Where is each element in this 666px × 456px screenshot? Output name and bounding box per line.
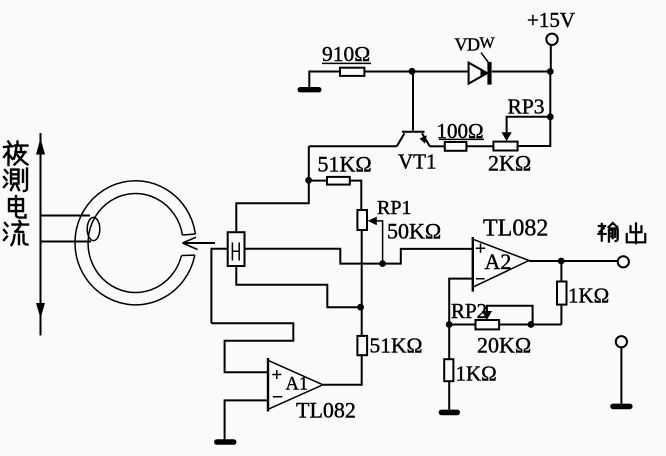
core gap bottom cap	[182, 254, 195, 256]
wire 51K top left stub	[309, 180, 327, 182]
current arrow up	[36, 138, 45, 155]
diode VDW	[469, 53, 492, 85]
svg-text:RP1: RP1	[377, 197, 411, 219]
wire to 1K bottom	[448, 325, 450, 360]
node bottom left	[446, 321, 453, 328]
svg-text:51KΩ: 51KΩ	[370, 334, 423, 358]
svg-text:1KΩ: 1KΩ	[456, 362, 497, 386]
potentiometer RP2	[476, 320, 500, 329]
svg-text:A1: A1	[286, 375, 309, 395]
resistor 1K bottom	[444, 359, 453, 381]
wire 100 to pot	[466, 145, 493, 147]
wire out to 1K	[560, 261, 562, 282]
svg-text:20KΩ: 20KΩ	[477, 333, 531, 358]
resistor 100	[445, 142, 467, 151]
label 输出	[598, 223, 645, 243]
svg-text:A2: A2	[485, 249, 512, 274]
RP1 wiper	[368, 217, 383, 264]
wire VT1 emitter	[430, 145, 445, 147]
gap arrow	[183, 237, 216, 249]
core gap top cap	[182, 233, 195, 236]
svg-text:VT1: VT1	[398, 150, 437, 174]
svg-text:VD: VD	[455, 34, 480, 54]
wire H top lead	[236, 146, 308, 232]
resistor 1K right	[557, 282, 567, 305]
potentiometer 2K body	[493, 142, 517, 151]
wire junction to 51K bottom	[361, 307, 363, 336]
wire VT1 collector run	[309, 145, 397, 147]
wire primary top branch	[41, 215, 91, 217]
svg-text:W: W	[480, 35, 496, 52]
wire VT1 base	[412, 72, 414, 131]
core outer arc	[75, 181, 195, 305]
hall element H	[228, 232, 245, 266]
resistor 910	[340, 68, 364, 76]
node VT1 base junction	[409, 68, 416, 75]
wire A2 minus	[449, 279, 473, 325]
svg-text:51KΩ: 51KΩ	[318, 152, 372, 177]
core inner arc	[88, 194, 182, 293]
wire zigzag to A1 +	[211, 323, 293, 372]
op-amp A2	[473, 237, 529, 292]
transistor VT1	[397, 132, 430, 147]
wire pot right to rail	[518, 72, 551, 147]
node bottom right	[528, 321, 535, 328]
svg-text:TL082: TL082	[483, 216, 548, 242]
svg-text:50KΩ: 50KΩ	[387, 218, 441, 243]
wire H bottom lead	[236, 266, 360, 307]
terminal output	[618, 256, 629, 267]
svg-text:+15V: +15V	[527, 8, 575, 32]
svg-text:TL082: TL082	[296, 398, 356, 423]
svg-text:2KΩ: 2KΩ	[488, 151, 531, 176]
node RP1 wiper junction	[379, 260, 386, 267]
wire bottom rail	[449, 324, 561, 326]
wire A1 minus to ground	[225, 400, 268, 439]
wire primary vertical	[40, 133, 42, 336]
label 910	[322, 42, 371, 66]
label 被测电流	[4, 142, 28, 246]
wire 1K to bottom rail	[560, 305, 562, 325]
RP3 wiper	[501, 117, 550, 141]
node A2 out	[558, 258, 565, 265]
potentiometer RP1	[357, 210, 367, 230]
ground output low	[610, 404, 632, 410]
op-amp A1	[268, 358, 323, 412]
svg-text:RP2: RP2	[451, 299, 487, 323]
wire H right lead to A2	[245, 249, 473, 264]
wire 51K right to RP1	[350, 181, 362, 210]
label 100	[437, 119, 485, 143]
svg-text:910Ω: 910Ω	[322, 42, 370, 66]
node 51K-left	[305, 177, 312, 184]
node RP3	[547, 113, 554, 120]
RP2 wiper	[482, 306, 533, 325]
wire A2 output	[529, 260, 618, 262]
ground A1	[214, 439, 237, 445]
resistor 51K bottom	[357, 336, 367, 355]
terminal output low	[616, 336, 627, 404]
ground 1K bottom	[439, 410, 460, 416]
wire primary bottom branch	[41, 241, 92, 243]
terminal +15V	[546, 34, 557, 72]
label VDW	[455, 34, 496, 54]
wire 910 to diode	[364, 71, 468, 73]
svg-text:RP3: RP3	[508, 95, 545, 119]
wire A1 output	[323, 355, 362, 385]
wire diode to +15V	[492, 71, 551, 73]
wire 1K bottom to ground	[448, 381, 450, 409]
node A1 network	[357, 304, 364, 311]
wire H left lead	[211, 249, 227, 323]
current arrow down	[36, 303, 45, 319]
svg-text:1KΩ: 1KΩ	[568, 284, 609, 308]
node +15V rail	[547, 68, 554, 75]
primary turn loop	[87, 217, 100, 240]
wire top rail left	[309, 72, 340, 88]
wire RP1 lower	[361, 230, 363, 307]
resistor 51K top	[327, 177, 350, 185]
ground 910	[298, 87, 322, 92]
